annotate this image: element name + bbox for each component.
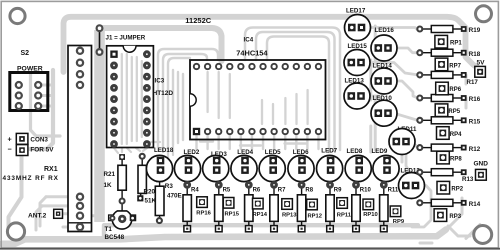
svg-text:LED16: LED16 — [375, 27, 395, 34]
IC socket IC3 HT12D — [107, 46, 154, 148]
wire — [366, 28, 418, 30]
wire — [173, 70, 183, 145]
svg-text:R12: R12 — [469, 146, 481, 153]
svg-text:IC3: IC3 — [155, 78, 165, 85]
LED LED18 — [146, 147, 173, 182]
wire — [267, 37, 329, 153]
svg-text:R9: R9 — [334, 187, 342, 193]
svg-text:RP4: RP4 — [450, 132, 462, 138]
svg-text:R19: R19 — [469, 27, 481, 34]
svg-text:CON3: CON3 — [30, 136, 48, 143]
svg-text:RP3: RP3 — [449, 214, 461, 220]
preset pad RP15 — [223, 198, 239, 218]
preset pad RP5 — [435, 104, 461, 117]
RF receiver module RX1 — [68, 46, 92, 232]
svg-text:J1 = JUMPER: J1 = JUMPER — [106, 35, 146, 42]
svg-text:FOR 5V: FOR 5V — [30, 147, 54, 154]
resistor R11 — [380, 183, 399, 232]
svg-text:1K: 1K — [104, 182, 113, 189]
svg-text:RP2: RP2 — [451, 187, 463, 193]
wire — [94, 30, 105, 222]
svg-text:11252C: 11252C — [185, 16, 211, 25]
resistor R20 — [137, 154, 146, 202]
wire — [42, 197, 95, 227]
wire — [163, 54, 207, 152]
svg-text:RP13: RP13 — [282, 213, 297, 219]
svg-text:R15: R15 — [469, 119, 481, 126]
LED LED2 — [174, 149, 200, 182]
resistor R17 — [417, 71, 478, 86]
svg-text:470E: 470E — [167, 193, 182, 200]
LED LED13 — [344, 77, 370, 109]
svg-text:LED9: LED9 — [372, 148, 388, 155]
svg-text:RP16: RP16 — [196, 211, 211, 217]
preset pad RP14 — [253, 198, 268, 218]
LED LED5 — [259, 149, 285, 181]
svg-text:−: − — [8, 145, 12, 154]
wire — [31, 74, 61, 136]
LED LED7 — [317, 147, 343, 181]
wire — [104, 225, 418, 238]
wire — [406, 142, 418, 173]
resistor R8 — [297, 183, 313, 232]
wire — [371, 26, 375, 152]
wire — [114, 142, 173, 158]
resistor R13 — [417, 169, 474, 183]
ground pad GND — [474, 160, 489, 180]
preset pad RP1 — [435, 35, 462, 48]
svg-text:LED7: LED7 — [321, 147, 337, 154]
connector CON3 positive pad — [16, 133, 28, 144]
preset pad RP9 — [390, 206, 405, 225]
svg-text:RP10: RP10 — [363, 212, 378, 218]
resistor R4 — [183, 183, 199, 232]
resistor R5 — [215, 183, 231, 232]
svg-text:RP11: RP11 — [337, 212, 352, 218]
mounting hole top-left — [10, 8, 25, 23]
svg-text:RX1: RX1 — [44, 166, 58, 173]
LED LED10 — [371, 95, 397, 126]
preset pad RP16 — [196, 197, 211, 217]
svg-text:ANT.2: ANT.2 — [28, 212, 47, 219]
svg-text:RP14: RP14 — [253, 212, 268, 218]
wire — [446, 198, 462, 230]
svg-text:RP8: RP8 — [450, 157, 462, 163]
LED LED4 — [231, 149, 257, 182]
wire — [420, 225, 480, 244]
svg-text:T1: T1 — [105, 226, 113, 233]
wire — [366, 96, 418, 120]
svg-text:R7: R7 — [278, 187, 286, 193]
wire — [64, 17, 479, 72]
svg-text:R16: R16 — [469, 96, 481, 103]
resistor R9 — [326, 183, 342, 232]
mounting hole top-right — [476, 6, 492, 22]
wire — [30, 70, 53, 149]
preset pad RP11 — [337, 198, 352, 219]
svg-text:R18: R18 — [469, 51, 481, 58]
svg-text:R8: R8 — [305, 187, 313, 193]
wire — [36, 197, 46, 230]
resistor R12 — [417, 144, 480, 153]
resistor R6 — [245, 183, 261, 232]
LED LED17 — [345, 8, 371, 41]
svg-text:LED17: LED17 — [346, 8, 366, 15]
svg-text:R14: R14 — [469, 201, 481, 208]
wire — [208, 72, 308, 124]
LED LED9 — [372, 148, 400, 182]
wire — [122, 54, 142, 144]
svg-text:+: + — [8, 135, 12, 144]
jumper J1 — [97, 25, 103, 55]
wire — [245, 28, 340, 151]
connector CON3 negative pad — [16, 145, 28, 156]
board bottom edge line — [0, 248, 500, 250]
svg-text:R13: R13 — [462, 176, 474, 183]
LED LED8 — [345, 148, 371, 182]
svg-text:GND: GND — [474, 160, 489, 167]
wire — [394, 48, 418, 53]
mounting hole bottom-right — [474, 226, 492, 244]
preset pad RP10 — [363, 199, 378, 218]
LED LED3 — [203, 151, 229, 181]
resistor R19 — [417, 26, 480, 35]
svg-text:R21: R21 — [104, 171, 116, 178]
preset pad RP6 — [436, 82, 462, 95]
svg-text:R11: R11 — [388, 187, 399, 193]
wire — [200, 142, 307, 146]
LED LED12 — [399, 167, 425, 198]
svg-text:R3: R3 — [165, 183, 174, 190]
svg-text:S2: S2 — [21, 50, 30, 57]
svg-text:RP12: RP12 — [308, 214, 323, 220]
wire — [195, 135, 197, 149]
resistor R16 — [417, 95, 480, 104]
wire — [100, 28, 222, 61]
wire — [412, 172, 431, 227]
wire — [158, 49, 218, 150]
svg-text:HT12D: HT12D — [153, 90, 174, 97]
svg-text:LED8: LED8 — [347, 148, 363, 155]
svg-text:RP7: RP7 — [449, 63, 461, 69]
wire — [40, 85, 52, 106]
wire — [466, 29, 468, 108]
wire — [402, 155, 470, 236]
svg-text:RP1: RP1 — [450, 41, 462, 47]
wire — [2, 230, 446, 244]
mounting hole bottom-left — [7, 223, 24, 240]
wire — [9, 156, 22, 231]
wire — [186, 172, 188, 182]
svg-text:R6: R6 — [253, 187, 261, 193]
svg-text:433MHZ RF RX: 433MHZ RF RX — [3, 175, 59, 182]
svg-text:R4: R4 — [191, 187, 199, 193]
LED LED15 — [344, 43, 370, 76]
svg-text:IC4: IC4 — [244, 36, 254, 43]
svg-text:BC548: BC548 — [105, 234, 125, 241]
transistor T1 BC548 — [109, 211, 136, 229]
LED LED6 — [288, 149, 314, 182]
resistor R15 — [417, 117, 480, 126]
svg-text:R20: R20 — [144, 188, 156, 195]
LED LED14 — [371, 62, 397, 94]
resistor R14 — [417, 199, 480, 208]
wire — [168, 58, 190, 152]
preset pad RP3 — [434, 209, 462, 222]
svg-text:5V: 5V — [477, 60, 486, 67]
resistor R10 — [352, 183, 372, 232]
wire — [394, 81, 418, 98]
LED LED11 — [389, 126, 417, 155]
IC IC4 74HC154 — [190, 60, 326, 140]
wire — [366, 63, 418, 75]
preset pad RP13 — [282, 199, 297, 219]
preset pad RP12 — [307, 199, 322, 219]
resistor R21 — [118, 154, 126, 211]
svg-text:RP15: RP15 — [225, 211, 240, 217]
svg-text:RP6: RP6 — [449, 87, 461, 93]
connector S2 POWER — [10, 66, 48, 111]
resistor R7 — [270, 183, 286, 232]
preset pad RP2 — [437, 181, 464, 194]
wire — [256, 32, 335, 151]
resistor R18 — [417, 49, 480, 58]
preset pad RP8 — [437, 151, 463, 164]
svg-text:R17: R17 — [467, 79, 479, 86]
svg-text:R5: R5 — [223, 187, 231, 193]
preset pad RP7 — [435, 58, 461, 71]
LED LED16 — [371, 27, 397, 61]
wire — [62, 212, 68, 215]
svg-text:LED18: LED18 — [154, 147, 174, 154]
5V supply pad — [475, 60, 486, 78]
resistor R3 — [155, 175, 164, 223]
svg-text:RP9: RP9 — [393, 219, 405, 225]
antenna pad ANT.2 — [54, 209, 63, 218]
svg-text:74HC154: 74HC154 — [236, 49, 268, 58]
preset pad RP4 — [437, 127, 463, 140]
svg-text:R10: R10 — [360, 187, 372, 193]
svg-text:RP5: RP5 — [448, 109, 460, 115]
